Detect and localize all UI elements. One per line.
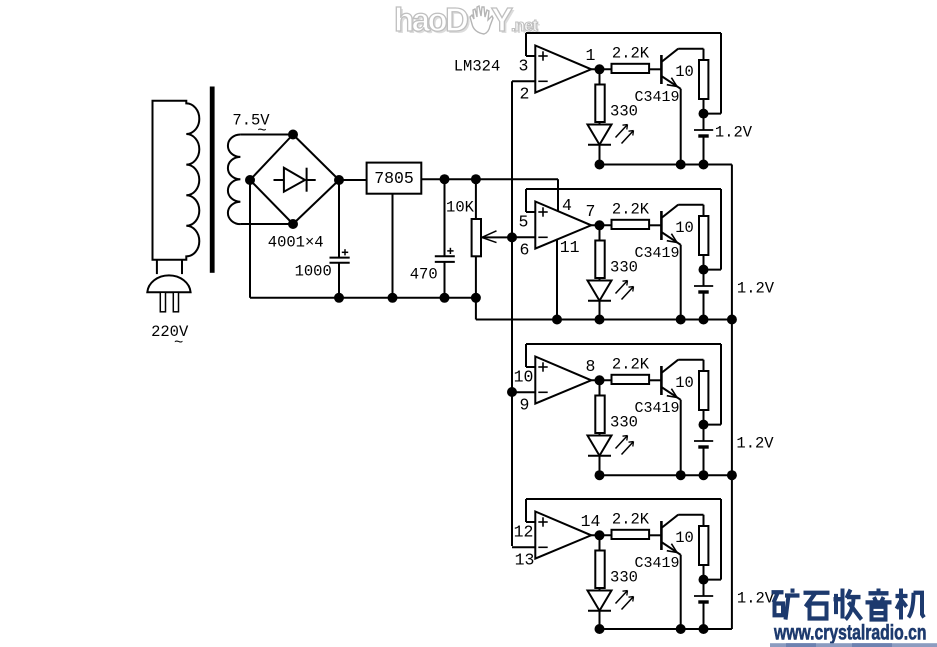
wire bridge DC- down	[249, 180, 251, 298]
potentiometer RP1 10K	[472, 179, 481, 298]
wire feedback top stage 4	[526, 499, 721, 580]
svg-text:11: 11	[560, 238, 580, 257]
battery B2 1.2V	[694, 270, 713, 320]
bridge rectifier 4001x4 diamond	[250, 135, 339, 225]
regulator U2 7805	[367, 163, 422, 194]
wire output stage 1	[591, 68, 611, 70]
wire emitter stage 1	[680, 89, 682, 165]
wire emitter stage 4	[680, 555, 682, 629]
node output stage 1	[595, 64, 605, 74]
svg-text:1000: 1000	[295, 262, 332, 280]
node bridge left (DC-)	[245, 175, 255, 185]
LED light arrows stage 4	[616, 591, 634, 610]
resistor 2.2K stage 4	[612, 530, 662, 539]
wire feedback top stage 3	[526, 344, 721, 425]
wire inverting input stage 3	[512, 391, 535, 393]
wire LM324 pin 4 (V+)	[557, 179, 559, 211]
wire inverting input stage 1	[512, 80, 535, 82]
capacitor C1 1000	[330, 180, 350, 298]
wire emitter stage 3	[680, 400, 682, 475]
svg-text:C3419: C3419	[634, 555, 679, 572]
transistor Q3 C3419	[661, 360, 680, 400]
wire ground rail stage 4	[600, 628, 732, 630]
battery B3 1.2V	[694, 425, 713, 476]
svg-text:330: 330	[610, 259, 638, 277]
wire feedback top stage 1	[526, 33, 721, 114]
wire feedback top stage 2	[526, 189, 721, 270]
mains plug prongs	[160, 292, 178, 312]
wire LM324 pin 11 (GND)	[556, 239, 558, 320]
wire 7805 ground pin	[392, 194, 394, 298]
svg-text:10: 10	[675, 63, 694, 81]
op-amp U1A stage 1	[535, 46, 591, 93]
svg-text:330: 330	[610, 103, 638, 121]
wire output stage 3	[591, 379, 611, 381]
svg-text:2.2K: 2.2K	[612, 44, 650, 62]
svg-text:12: 12	[514, 523, 534, 542]
wire right ground rail	[731, 165, 733, 630]
junction C2 top	[440, 174, 450, 184]
label 7.5V	[232, 112, 270, 140]
svg-text:4: 4	[562, 196, 572, 215]
LED D3	[588, 436, 612, 476]
svg-text:8: 8	[586, 357, 596, 376]
wire inverting input bus (left rail)	[511, 81, 513, 546]
junction emitter ground stage 1	[676, 160, 686, 170]
junction LED ground stage 1	[595, 160, 605, 170]
junction LED ground stage 2	[595, 315, 605, 325]
junction 10K ground	[471, 293, 481, 303]
junction pin 11 ground	[552, 315, 562, 325]
resistor 330 stage 1	[595, 69, 604, 124]
wire collector stage 1	[678, 49, 703, 60]
resistor 330 stage 3	[595, 380, 604, 435]
svg-text:1: 1	[586, 46, 596, 65]
label 220V	[151, 323, 189, 352]
resistor 10 stage 2	[699, 216, 708, 270]
op-amp U1C stage 3	[535, 357, 591, 404]
svg-text:Y: Y	[491, 1, 513, 38]
wire ground rail stage 1	[600, 164, 732, 166]
node battery positive stage 1	[699, 109, 709, 119]
wire collector stage 4	[678, 515, 703, 526]
svg-text:2.2K: 2.2K	[612, 510, 650, 528]
svg-text:C3419: C3419	[634, 400, 679, 417]
junction wiper / stage2 inverting input	[507, 232, 517, 242]
wire inverting input stage 2	[512, 236, 535, 238]
svg-text:1.2V: 1.2V	[737, 590, 775, 608]
op-amp U1D stage 4	[535, 512, 591, 559]
junction emitter ground stage 2	[676, 315, 686, 325]
svg-text:4001×4: 4001×4	[268, 234, 324, 252]
node battery positive stage 4	[699, 575, 709, 585]
resistor 2.2K stage 1	[612, 64, 662, 73]
LED D1	[588, 125, 612, 165]
crystalradio logo bottom bar	[770, 643, 937, 647]
wire non-inverting input stage 2	[526, 189, 535, 212]
wire collector stage 3	[678, 360, 703, 371]
svg-text:330: 330	[610, 414, 638, 432]
battery B4 1.2V	[694, 580, 713, 629]
potentiometer wiper arrow	[482, 231, 512, 243]
junction battery ground stage 1	[699, 160, 709, 170]
bridge internal diode symbol	[274, 168, 316, 192]
svg-text:5: 5	[519, 213, 529, 232]
wire output stage 4	[591, 534, 611, 536]
wire +5V rail	[421, 178, 558, 180]
transistor Q2 C3419	[661, 205, 680, 245]
wire collector stage 2	[678, 205, 703, 216]
wire main ground rail	[250, 297, 476, 299]
junction emitter ground stage 3	[676, 470, 686, 480]
transformer T1 secondary winding	[228, 135, 241, 225]
wire output stage 2	[591, 224, 611, 226]
transformer core	[210, 87, 215, 273]
LED D2	[588, 281, 612, 320]
junction right rail stage3	[727, 470, 737, 480]
mains plug body	[147, 275, 190, 292]
node bridge right (DC+)	[334, 175, 344, 185]
svg-text:9: 9	[520, 396, 530, 415]
svg-text:13: 13	[515, 551, 535, 570]
LED light arrows stage 1	[616, 125, 634, 144]
svg-text:10: 10	[514, 368, 534, 387]
haoDIY.net watermark logo	[394, 1, 540, 40]
svg-text:6: 6	[520, 241, 530, 260]
svg-text:1.2V: 1.2V	[736, 435, 774, 453]
resistor 10 stage 1	[699, 60, 708, 114]
node output stage 4	[595, 530, 605, 540]
resistor 330 stage 4	[595, 535, 604, 590]
svg-text:470: 470	[410, 266, 438, 284]
svg-text:10: 10	[675, 374, 694, 392]
resistor 10 stage 4	[699, 526, 708, 580]
transistor Q4 C3419	[661, 515, 680, 555]
svg-text:2.2K: 2.2K	[612, 355, 650, 373]
node bridge top (AC)	[288, 130, 298, 140]
svg-text:7805: 7805	[374, 169, 414, 188]
node output stage 3	[595, 375, 605, 385]
junction C2 ground	[440, 293, 450, 303]
svg-text:haoD: haoD	[394, 1, 469, 38]
transformer T1 primary winding	[153, 101, 200, 260]
LED light arrows stage 3	[616, 436, 634, 455]
LED light arrows stage 2	[616, 281, 634, 300]
wire ground rail stage 3	[600, 474, 732, 476]
svg-text:7: 7	[586, 202, 596, 221]
junction 7805 ground	[388, 293, 398, 303]
mains plug neck	[157, 260, 182, 274]
resistor 2.2K stage 3	[612, 375, 662, 384]
junction LED ground stage 3	[595, 470, 605, 480]
junction battery ground stage 2	[699, 315, 709, 325]
transistor Q1 C3419	[661, 49, 680, 89]
svg-text:C3419: C3419	[634, 89, 679, 106]
crystalradio.cn logo chinese characters	[772, 589, 925, 620]
LED D4	[588, 591, 612, 630]
wire ground rail stage 2	[476, 319, 732, 321]
junction battery ground stage 4	[699, 624, 709, 634]
wire non-inverting input stage 4	[526, 499, 535, 522]
capacitor C2 470	[435, 179, 455, 298]
svg-text:10K: 10K	[446, 199, 475, 217]
node bridge bottom (AC)	[288, 219, 298, 229]
junction 10K top	[471, 174, 481, 184]
svg-text:330: 330	[610, 569, 638, 587]
junction battery ground stage 3	[699, 470, 709, 480]
svg-text:3: 3	[519, 57, 529, 76]
capacitor C2 polarity +	[447, 248, 453, 254]
resistor 330 stage 2	[595, 225, 604, 280]
wire secondary top to bridge	[240, 134, 293, 136]
svg-text:www.crystalradio.cn: www.crystalradio.cn	[773, 622, 926, 645]
wire inverting input stage 4	[512, 546, 535, 548]
junction C1 ground	[334, 293, 344, 303]
svg-text:1.2V: 1.2V	[737, 280, 775, 298]
svg-text:2: 2	[520, 85, 530, 104]
svg-text:LM324: LM324	[454, 58, 501, 76]
wire bridge DC+ to 7805	[339, 179, 367, 181]
resistor 2.2K stage 2	[612, 220, 662, 229]
wire non-inverting input stage 3	[526, 344, 535, 367]
node battery positive stage 2	[699, 265, 709, 275]
svg-text:14: 14	[581, 512, 601, 531]
junction right rail stage2	[727, 315, 737, 325]
wire secondary bottom to bridge	[240, 223, 293, 225]
op-amp U1B stage 2	[535, 202, 591, 249]
capacitor C1 polarity +	[342, 249, 348, 255]
battery B1 1.2V	[694, 114, 713, 165]
resistor 10 stage 3	[699, 371, 708, 425]
junction emitter ground stage 4	[676, 624, 686, 634]
node output stage 2	[595, 220, 605, 230]
svg-text:2.2K: 2.2K	[612, 200, 650, 218]
junction LED ground stage 4	[595, 624, 605, 634]
svg-text:C3419: C3419	[634, 245, 679, 262]
junction stage3 inverting input	[507, 387, 517, 397]
svg-text:1.2V: 1.2V	[715, 124, 753, 142]
svg-text:10: 10	[675, 529, 694, 547]
svg-text:~: ~	[257, 122, 266, 140]
wire non-inverting input stage 1	[526, 33, 535, 56]
svg-text:10: 10	[675, 219, 694, 237]
svg-text:~: ~	[174, 334, 183, 352]
node battery positive stage 3	[699, 420, 709, 430]
wire ground rail drop to stage rail	[475, 298, 477, 320]
wire emitter stage 2	[680, 245, 682, 320]
